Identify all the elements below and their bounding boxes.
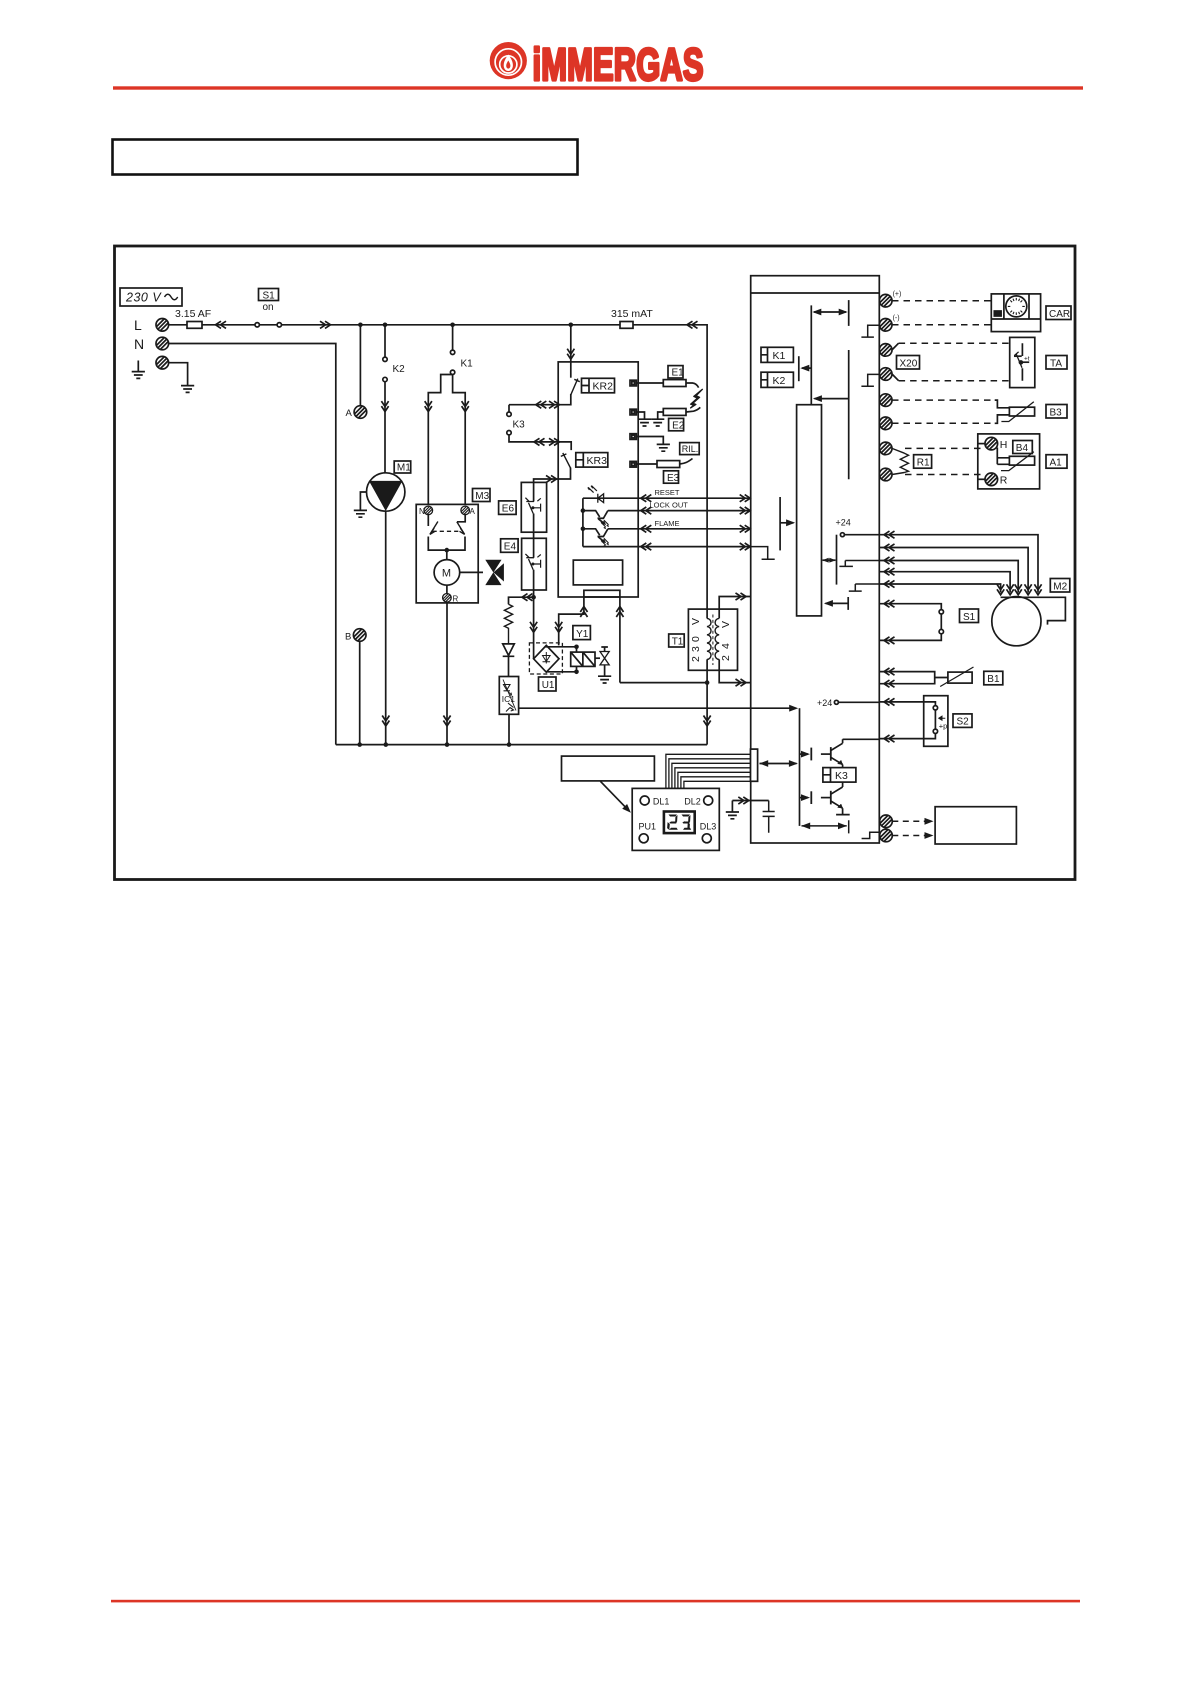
arrow to bar c <box>800 365 811 372</box>
S1 drive arrow <box>824 597 848 610</box>
TA label <box>1046 356 1067 370</box>
air pressure switch S1 wires <box>879 600 943 644</box>
K2 contact <box>383 325 405 473</box>
connector block on box bottom <box>584 590 620 597</box>
svg-text:M3: M3 <box>475 491 489 502</box>
svg-text:+24: +24 <box>836 518 851 528</box>
M3 terminal R <box>446 585 448 593</box>
Y1 label <box>573 626 591 640</box>
svg-text:M2: M2 <box>1053 581 1067 592</box>
wire B to bus <box>359 641 361 744</box>
T1 24V top wire <box>719 593 751 619</box>
bracket at bottom terminals <box>862 832 880 838</box>
svg-text:S2: S2 <box>957 717 970 728</box>
pump M1 <box>354 473 405 517</box>
svg-text:E2: E2 <box>672 420 685 431</box>
315 mAT fuse <box>571 308 707 609</box>
dashed B4 R <box>905 474 985 476</box>
wire L to switch <box>202 324 255 326</box>
KR2 contact <box>558 362 580 405</box>
dashed B3 bottom <box>892 422 995 424</box>
common wire <box>583 543 751 550</box>
terminal earth <box>156 356 169 369</box>
svg-text:315 mAT: 315 mAT <box>611 308 653 320</box>
svg-text:K3: K3 <box>513 420 526 431</box>
node junction E4 out <box>531 595 536 600</box>
arrow e to tall rect <box>780 519 795 526</box>
CAR label <box>1046 306 1071 320</box>
svg-text:K1: K1 <box>773 350 786 362</box>
terminal X20 a <box>879 344 892 357</box>
M3 motor M <box>434 560 460 586</box>
spark <box>691 389 703 408</box>
flame wire <box>608 519 751 533</box>
dashed TA top <box>899 342 1010 344</box>
left rail <box>582 498 584 546</box>
KR3 contact <box>558 442 571 479</box>
T1 label <box>669 634 685 647</box>
svg-text:RESET: RESET <box>655 488 680 497</box>
wire L after switch <box>282 324 571 326</box>
E2 label <box>669 418 685 431</box>
wire control box to E6 chain <box>534 479 559 482</box>
bottom double arrow <box>801 820 849 833</box>
room thermostat TA <box>1010 337 1035 387</box>
internal line a <box>810 305 812 404</box>
dashed TA bottom <box>899 380 1010 382</box>
svg-text:R: R <box>1000 475 1008 487</box>
electrode E1 <box>636 380 698 388</box>
internal bar b <box>848 300 850 326</box>
diode <box>503 644 515 677</box>
terminal B <box>353 629 366 642</box>
relay KR3 <box>576 453 608 468</box>
main diagram border <box>115 246 1076 880</box>
svg-text:K1: K1 <box>461 359 474 370</box>
K1 contact <box>450 325 473 375</box>
wire to terminal A <box>359 325 361 406</box>
pin 4 <box>630 461 636 467</box>
gas valve symbol <box>595 647 611 683</box>
+24 node upper <box>836 518 880 537</box>
svg-text:E6: E6 <box>502 504 515 515</box>
svg-text:N: N <box>134 336 144 352</box>
transistor Q2 <box>821 782 850 815</box>
svg-text:R: R <box>453 595 459 604</box>
switch S1 <box>255 289 281 327</box>
R1 label <box>914 455 932 469</box>
display pointer rectangle <box>562 756 655 781</box>
node junction L-A <box>358 323 363 328</box>
lock out wire <box>608 501 751 515</box>
ground stub wire 4 <box>751 547 775 560</box>
M1 label <box>394 461 411 474</box>
A1 label <box>1046 455 1067 469</box>
electrode E3 <box>636 459 692 468</box>
arrow d to a <box>813 395 849 402</box>
svg-text:R1: R1 <box>917 458 930 469</box>
wire M1 to bus <box>385 511 387 744</box>
svg-text:A1: A1 <box>1050 458 1063 469</box>
svg-text:B: B <box>345 632 351 643</box>
node dot lockout <box>581 508 586 513</box>
node junction control feed <box>569 323 574 328</box>
bottom red rule <box>111 1600 1080 1603</box>
T1 24V bottom wire <box>719 659 751 686</box>
fan wire 2 <box>879 544 1031 595</box>
sensor B3 <box>995 400 1035 423</box>
svg-text:A: A <box>470 507 476 516</box>
flow sensor B1 <box>879 667 973 687</box>
svg-text:RIL.: RIL. <box>682 444 699 454</box>
svg-text:+t: +t <box>1024 356 1030 363</box>
N wire to right and down <box>169 344 336 745</box>
wire control box to K3 top <box>509 404 558 406</box>
svg-text:S1: S1 <box>963 612 976 623</box>
resistor R1 <box>892 448 909 474</box>
svg-text:DL3: DL3 <box>700 822 717 832</box>
double arrow a-b <box>812 309 847 316</box>
B4 label <box>1013 441 1033 454</box>
pointer arrow <box>600 781 633 815</box>
dashed CAR + <box>892 300 991 302</box>
svg-text:230 V: 230 V <box>690 618 702 662</box>
svg-text:PU1: PU1 <box>639 822 657 832</box>
svg-text:B4: B4 <box>1016 443 1029 454</box>
S1 label <box>960 609 979 623</box>
terminal (-) <box>879 319 892 332</box>
M3 contact arrows <box>428 515 465 560</box>
svg-text:CAR: CAR <box>1049 309 1070 320</box>
earth terminal wire and ground <box>169 363 195 393</box>
wire Y1 feed B <box>616 597 623 683</box>
fan wire 3 <box>879 557 1022 595</box>
ribbon connector <box>751 749 758 781</box>
E6 label <box>499 501 516 515</box>
230V supply box <box>120 288 182 306</box>
bottom right terminal 1 <box>880 815 893 828</box>
+24 node lower <box>817 698 879 708</box>
K1 output staircase wires <box>428 375 452 505</box>
terminal L <box>156 319 169 332</box>
pressure switch S2 <box>879 696 948 747</box>
tall rectangle <box>797 405 822 616</box>
svg-text:LOCK OUT: LOCK OUT <box>650 501 689 510</box>
earth label symbol <box>132 361 145 379</box>
svg-text:KR2: KR2 <box>593 381 614 393</box>
svg-text:Y1: Y1 <box>576 629 589 640</box>
svg-text:3.15 AF: 3.15 AF <box>175 308 211 320</box>
svg-text:A: A <box>346 408 353 419</box>
M3 terminal N <box>424 506 433 515</box>
pin 1 <box>630 380 636 386</box>
switch E6 <box>521 482 546 532</box>
chevrons on L wire <box>216 321 227 328</box>
empty title rectangle <box>113 140 578 175</box>
control box outline <box>558 362 638 597</box>
fan wire 4 <box>879 568 1013 595</box>
reset wire <box>638 488 751 502</box>
terminal N <box>156 337 169 350</box>
display driver rectangle <box>573 560 622 585</box>
CAR remote unit <box>991 294 1040 332</box>
svg-text:H: H <box>1000 439 1008 451</box>
svg-text:E1: E1 <box>672 368 685 379</box>
dashed B3 top <box>892 399 995 401</box>
bottom right terminal 2 <box>880 829 893 842</box>
tank unit A1 with sensor B4 <box>978 434 1040 489</box>
relay K3 box <box>823 768 856 783</box>
logo mark <box>490 42 527 79</box>
ground bracket terminal 2 <box>861 325 879 337</box>
switch E4 <box>522 531 547 597</box>
three-way valve M3 box <box>416 504 478 603</box>
fuse 3.15 AF <box>169 308 212 328</box>
terminal (+) <box>879 294 892 307</box>
M3 terminal A <box>461 506 470 515</box>
display ground <box>726 797 751 819</box>
terminal A1 a <box>879 442 892 455</box>
svg-text:L: L <box>134 317 142 333</box>
B3 label <box>1046 405 1067 419</box>
node junction K2 <box>383 323 388 328</box>
E4 label <box>501 539 518 553</box>
B1 label <box>984 671 1003 685</box>
terminal A <box>354 406 367 419</box>
terminal X20 b <box>879 368 892 381</box>
internal bar e <box>779 497 781 550</box>
wire M3 to bus <box>446 603 448 745</box>
electrode E2 <box>636 407 700 426</box>
svg-text:iMMERGAS: iMMERGAS <box>533 40 704 90</box>
node dot flame <box>581 527 586 532</box>
dashed CAR - <box>892 324 991 326</box>
svg-text:+p: +p <box>939 722 948 731</box>
svg-text:E3: E3 <box>667 473 680 484</box>
pin 2 <box>630 409 636 415</box>
X20 bracket <box>892 343 899 381</box>
dashed link remote 2 <box>892 832 933 839</box>
S2 label <box>953 714 972 728</box>
RIL. label <box>680 443 700 455</box>
PCB top strip <box>751 292 880 294</box>
relay coil Y1 <box>546 645 595 675</box>
svg-text:on: on <box>263 302 274 313</box>
svg-text:M: M <box>442 568 451 580</box>
svg-text:DL2: DL2 <box>684 796 701 806</box>
bottom bus wire <box>336 744 707 746</box>
M3 label <box>473 489 491 502</box>
IC1 to bus <box>508 714 510 744</box>
svg-text:K2: K2 <box>773 375 786 387</box>
ground bracket terminal 4 <box>861 374 879 386</box>
Y1 return to T1 primary node <box>620 682 707 684</box>
resistor <box>504 604 512 644</box>
bridge rectifier U1 <box>529 597 562 674</box>
contact K3 <box>507 405 558 442</box>
Q2 base T bar <box>800 791 812 804</box>
pin 3 <box>630 434 636 440</box>
svg-text:FLAME: FLAME <box>655 519 680 528</box>
phototransistor 2 <box>583 529 609 547</box>
U1 label <box>539 677 557 691</box>
X20 label <box>897 356 920 370</box>
M2 label <box>1050 579 1070 593</box>
internal bar c <box>798 356 800 381</box>
relay K1 box <box>761 347 793 362</box>
fan wire 5 <box>879 580 1004 594</box>
dashed B4 H <box>905 447 985 449</box>
svg-text:KR3: KR3 <box>587 455 608 467</box>
M3 three way valve symbol <box>460 560 504 584</box>
svg-text:S1: S1 <box>263 291 276 302</box>
svg-text:TA: TA <box>1050 358 1062 369</box>
Q1 wire from edge <box>843 738 880 740</box>
relay KR2 <box>582 378 615 393</box>
svg-text:X20: X20 <box>900 358 918 369</box>
svg-text:B3: B3 <box>1050 407 1063 418</box>
svg-text:(-): (-) <box>893 315 900 322</box>
connector double arrow <box>759 760 798 767</box>
T1 primary to bus <box>704 670 711 744</box>
svg-text:K3: K3 <box>835 770 848 782</box>
pin3 ground <box>636 437 670 452</box>
top red rule <box>113 86 1083 89</box>
terminal A1 b <box>879 468 892 481</box>
svg-text:IC1: IC1 <box>502 694 516 704</box>
svg-text:B1: B1 <box>987 674 1000 685</box>
svg-text:T1: T1 <box>672 636 684 647</box>
chevron down M1 feed <box>381 401 388 412</box>
Q1 base T bar <box>800 748 812 761</box>
logo text iMMERGAS <box>533 40 704 90</box>
wire into control box <box>570 325 572 362</box>
E1 label <box>668 366 684 379</box>
LED indicator <box>583 486 638 503</box>
svg-text:230 V: 230 V <box>125 291 162 305</box>
node junction K1 <box>450 323 455 328</box>
svg-text:24 V: 24 V <box>720 621 732 661</box>
remote control box <box>935 807 1016 844</box>
svg-text:(+): (+) <box>893 291 902 298</box>
display board <box>632 788 719 850</box>
driver T stub wire3 <box>839 561 879 567</box>
terminal B3 a <box>879 394 892 407</box>
K3 driver rail <box>799 708 801 826</box>
driver T stub wire5 <box>849 584 880 591</box>
filter capacitor <box>751 801 775 833</box>
7-segment display <box>664 812 695 834</box>
internal bar f <box>836 535 838 585</box>
dashed link remote 1 <box>892 818 933 825</box>
svg-text:N: N <box>419 507 425 516</box>
double arrow tallrect-f <box>822 558 836 563</box>
internal line d <box>848 350 850 479</box>
svg-text:DL1: DL1 <box>653 796 670 806</box>
svg-text:M1: M1 <box>397 463 411 474</box>
IC1 output wire to PCB <box>519 707 795 709</box>
svg-text:E4: E4 <box>504 542 517 553</box>
fan M2 <box>992 597 1066 646</box>
optocoupler IC1 <box>499 677 518 715</box>
transistor Q1 <box>821 739 843 767</box>
relay K2 box <box>761 372 793 387</box>
wire to opto chain <box>509 597 534 604</box>
E3 label <box>664 471 680 484</box>
LED DL1 <box>640 796 649 805</box>
terminal B3 b <box>879 417 892 430</box>
svg-text:U1: U1 <box>542 680 555 691</box>
bus junction dots <box>357 742 362 747</box>
svg-text:K2: K2 <box>393 364 406 375</box>
fan wire 1 <box>879 531 1041 595</box>
svg-text:+24: +24 <box>817 698 832 708</box>
wire Y1 feed A <box>555 597 587 645</box>
ribbon cable <box>666 754 751 788</box>
PCB outline <box>751 276 880 843</box>
phototransistor 1 <box>583 511 609 529</box>
